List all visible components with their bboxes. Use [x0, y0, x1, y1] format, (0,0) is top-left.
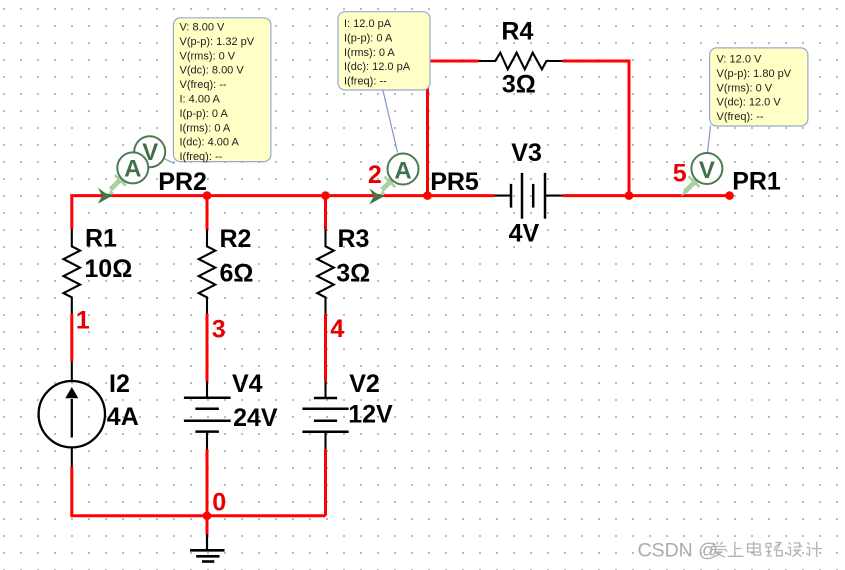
wire: I2 bottom + bottom horizontal rail	[72, 467, 326, 516]
svg-text:I(rms): 0 A: I(rms): 0 A	[180, 122, 231, 134]
resistor R3	[317, 230, 334, 314]
probe 5 (V)	[681, 153, 722, 196]
svg-text:V3: V3	[511, 139, 542, 167]
watermark chinese glyphs	[711, 542, 822, 558]
label R1	[85, 224, 117, 252]
svg-text:3: 3	[212, 316, 226, 344]
svg-text:4A: 4A	[107, 403, 139, 431]
battery V3	[494, 173, 563, 219]
label I2	[109, 370, 130, 398]
watermark CSDN	[638, 540, 718, 562]
svg-text:5: 5	[673, 159, 687, 187]
svg-text:V: V	[699, 157, 715, 184]
node 3	[212, 316, 226, 344]
value 4V	[509, 219, 540, 247]
wire: V4 bottom to rail	[206, 450, 209, 516]
svg-text:PR1: PR1	[732, 168, 781, 196]
wire: R3 bottom to V2 top	[324, 314, 327, 382]
svg-text:V(dc): 12.0 V: V(dc): 12.0 V	[717, 97, 782, 109]
wire: left vertical + main horizontal left segment (node PR2 net)	[72, 196, 494, 229]
svg-text:I2: I2	[109, 370, 130, 398]
svg-text:10Ω: 10Ω	[84, 255, 132, 283]
wire: R4 branch top-right horizontal and right vertical	[563, 61, 629, 196]
measurement box PR2	[173, 18, 271, 163]
label PR2	[158, 168, 207, 196]
junction PR1 end	[725, 191, 734, 200]
resistor R4	[478, 53, 562, 70]
label V2	[349, 370, 380, 398]
junction R3 top	[321, 191, 330, 200]
svg-text:I: 4.00 A: I: 4.00 A	[180, 94, 221, 106]
svg-text:V: 8.00 V: V: 8.00 V	[180, 22, 226, 34]
svg-text:I(p-p): 0 A: I(p-p): 0 A	[344, 32, 393, 44]
wire: R4 branch left vertical and top-left horizontal	[428, 61, 479, 196]
label R2	[220, 225, 252, 253]
label PR5	[430, 168, 479, 196]
node 4	[330, 315, 344, 343]
svg-text:0: 0	[212, 489, 226, 517]
svg-text:2: 2	[368, 161, 382, 189]
svg-text:CSDN @: CSDN @	[638, 540, 718, 562]
svg-text:A: A	[124, 155, 141, 182]
svg-text:I(p-p): 0 A: I(p-p): 0 A	[180, 108, 229, 120]
svg-text:V4: V4	[232, 370, 263, 398]
svg-text:3Ω: 3Ω	[336, 260, 370, 288]
svg-text:I(freq): --: I(freq): --	[180, 151, 223, 163]
connector line box1 to probe PR2	[150, 152, 175, 164]
svg-text:V(p-p): 1.32 pV: V(p-p): 1.32 pV	[180, 36, 255, 48]
value 6Ω	[220, 260, 254, 288]
svg-text:I(rms): 0 A: I(rms): 0 A	[344, 47, 395, 59]
svg-text:A: A	[394, 157, 411, 184]
wire: ground stub (node 0)	[206, 516, 209, 535]
probe PR2 (A+V)	[98, 136, 165, 204]
svg-text:12V: 12V	[348, 401, 393, 429]
svg-text:PR5: PR5	[430, 168, 479, 196]
wire: R1 bottom to I2 top	[70, 314, 73, 362]
resistor R1	[64, 229, 81, 314]
node 5	[673, 159, 687, 187]
svg-text:6Ω: 6Ω	[220, 260, 254, 288]
svg-text:V2: V2	[349, 370, 380, 398]
wire: V2 bottom vertical to rail	[324, 449, 327, 516]
svg-text:3Ω: 3Ω	[502, 71, 536, 99]
svg-text:24V: 24V	[233, 404, 278, 432]
label V4	[232, 370, 263, 398]
svg-text:R4: R4	[501, 18, 533, 46]
wire: R3 top	[324, 196, 327, 230]
value 10Ω	[84, 255, 132, 283]
connector line box3 to probe 5	[708, 126, 711, 154]
probe 2 (A)	[369, 154, 418, 205]
label R4	[501, 18, 533, 46]
svg-text:V(freq): --: V(freq): --	[180, 79, 227, 91]
ground	[190, 534, 225, 562]
svg-text:V(rms): 0 V: V(rms): 0 V	[717, 82, 773, 94]
svg-text:R1: R1	[85, 224, 117, 252]
measurement box probe 2	[338, 12, 430, 90]
connector line box2 to probe 2	[383, 91, 398, 153]
svg-text:V(freq): --: V(freq): --	[717, 111, 764, 123]
wire: R2 top	[206, 196, 209, 230]
svg-text:I(dc): 12.0 pA: I(dc): 12.0 pA	[344, 61, 411, 73]
svg-text:4: 4	[330, 315, 344, 343]
svg-text:V(dc): 8.00 V: V(dc): 8.00 V	[180, 65, 245, 77]
svg-text:R2: R2	[220, 225, 252, 253]
value 4A	[107, 403, 139, 431]
resistor R2	[199, 230, 216, 314]
wire: main horizontal right segment (V3 to PR1)	[563, 194, 730, 197]
svg-text:4V: 4V	[509, 219, 540, 247]
current source I2	[39, 362, 105, 467]
value 3Ω (R3)	[336, 260, 370, 288]
label R3	[338, 225, 370, 253]
svg-text:V(rms): 0 V: V(rms): 0 V	[180, 50, 236, 62]
svg-text:R3: R3	[338, 225, 370, 253]
label PR1	[732, 168, 781, 196]
junction PR5 node	[423, 191, 432, 200]
junction R4 right	[625, 191, 634, 200]
measurement box probe 5	[710, 48, 808, 126]
svg-text:I(freq): --: I(freq): --	[344, 76, 387, 88]
value 12V	[348, 401, 393, 429]
junction node 0	[203, 512, 212, 521]
svg-text:I: 12.0 pA: I: 12.0 pA	[344, 18, 392, 30]
svg-text:1: 1	[76, 307, 90, 335]
node 1	[76, 307, 90, 335]
svg-text:V: 12.0 V: V: 12.0 V	[717, 54, 763, 66]
battery V4	[184, 382, 231, 450]
node 0	[212, 489, 226, 517]
wire: R2 bottom to V4 top	[206, 314, 209, 382]
value 24V	[233, 404, 278, 432]
node 2	[368, 161, 382, 189]
junction PR2 node	[203, 191, 212, 200]
svg-text:I(dc): 4.00 A: I(dc): 4.00 A	[180, 137, 240, 149]
value 3Ω (R4)	[502, 71, 536, 99]
svg-text:PR2: PR2	[158, 168, 207, 196]
battery V2	[302, 382, 348, 450]
label V3	[511, 139, 542, 167]
svg-text:V(p-p): 1.80 pV: V(p-p): 1.80 pV	[717, 68, 792, 80]
